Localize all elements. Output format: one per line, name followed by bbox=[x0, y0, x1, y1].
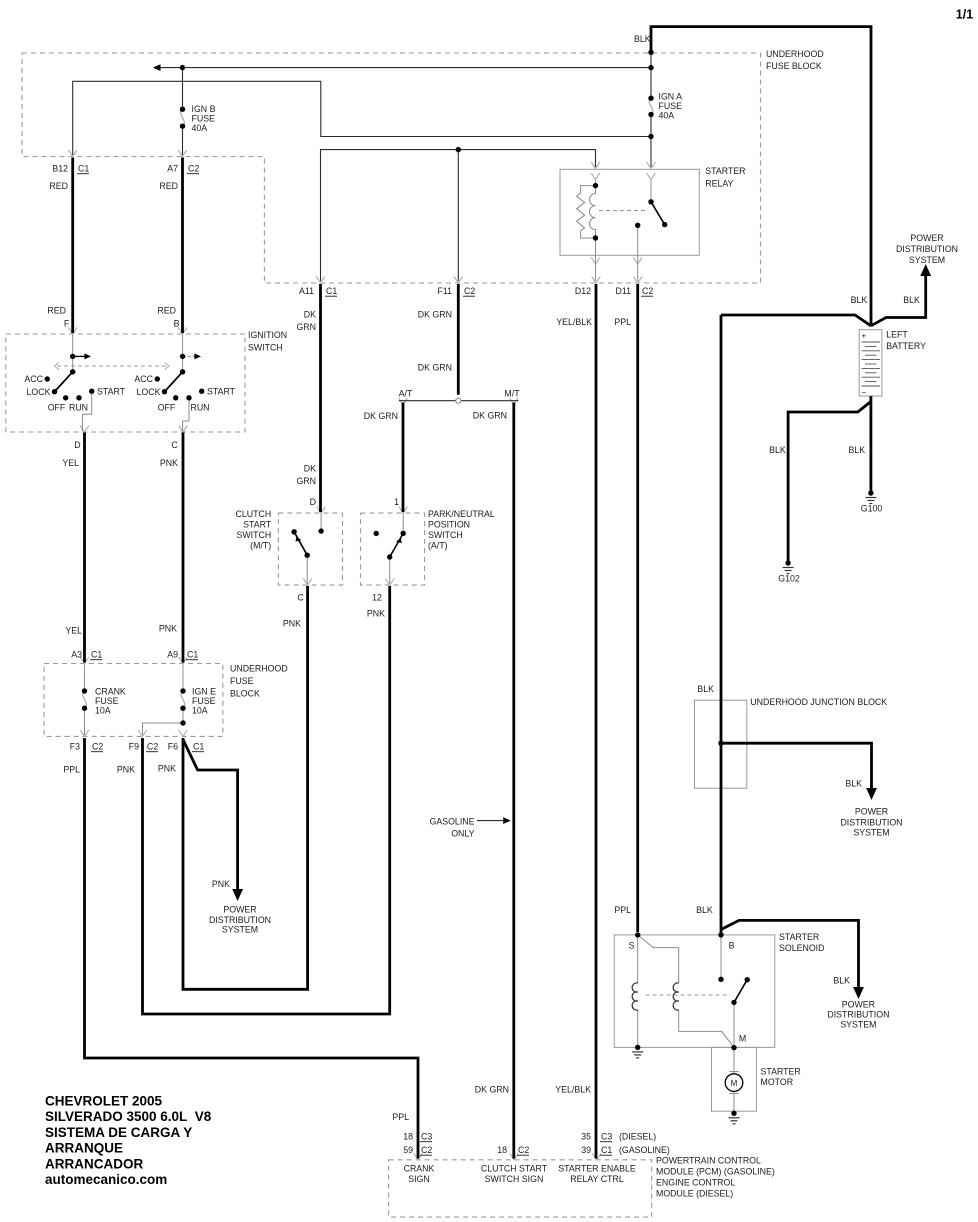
svg-text:SWITCH: SWITCH bbox=[428, 530, 463, 540]
svg-text:−: − bbox=[861, 388, 866, 397]
svg-text:18: 18 bbox=[403, 1132, 413, 1142]
svg-text:PPL: PPL bbox=[614, 905, 631, 915]
svg-text:M: M bbox=[731, 1079, 738, 1088]
svg-text:PNK: PNK bbox=[212, 879, 230, 889]
svg-text:YEL/BLK: YEL/BLK bbox=[555, 1085, 591, 1095]
svg-text:BLK: BLK bbox=[696, 905, 713, 915]
svg-text:BLK: BLK bbox=[851, 295, 868, 305]
svg-text:C2: C2 bbox=[421, 1145, 432, 1155]
svg-text:DK GRN: DK GRN bbox=[475, 1085, 509, 1095]
svg-text:(A/T): (A/T) bbox=[428, 541, 448, 551]
svg-text:SISTEMA DE CARGA Y: SISTEMA DE CARGA Y bbox=[45, 1125, 192, 1140]
svg-text:YEL: YEL bbox=[62, 458, 79, 468]
svg-text:UNDERHOOD: UNDERHOOD bbox=[766, 49, 824, 59]
svg-text:10A: 10A bbox=[192, 706, 208, 716]
svg-text:UNDERHOOD JUNCTION BLOCK: UNDERHOOD JUNCTION BLOCK bbox=[750, 697, 887, 707]
svg-text:BLK: BLK bbox=[769, 445, 786, 455]
svg-text:FUSE: FUSE bbox=[192, 696, 216, 706]
svg-text:PPL: PPL bbox=[614, 317, 631, 327]
svg-text:UNDERHOOD: UNDERHOOD bbox=[230, 664, 288, 674]
svg-text:(GASOLINE): (GASOLINE) bbox=[619, 1145, 670, 1155]
svg-text:PNK: PNK bbox=[158, 764, 176, 774]
svg-text:B12: B12 bbox=[52, 164, 68, 174]
svg-text:YEL: YEL bbox=[65, 626, 82, 636]
svg-text:GRN: GRN bbox=[296, 322, 316, 332]
svg-text:C3: C3 bbox=[601, 1132, 612, 1142]
svg-text:BLK: BLK bbox=[697, 684, 714, 694]
svg-text:40A: 40A bbox=[192, 123, 208, 133]
svg-text:(M/T): (M/T) bbox=[250, 541, 271, 551]
svg-text:18: 18 bbox=[497, 1145, 507, 1155]
svg-text:C: C bbox=[297, 593, 304, 603]
svg-text:ARRANQUE: ARRANQUE bbox=[45, 1141, 123, 1156]
svg-text:DK GRN: DK GRN bbox=[364, 411, 398, 421]
svg-text:LEFT: LEFT bbox=[886, 330, 908, 340]
svg-text:POWER: POWER bbox=[223, 905, 256, 915]
svg-text:DK: DK bbox=[304, 310, 316, 320]
svg-text:POWER: POWER bbox=[842, 1000, 875, 1010]
svg-text:PNK: PNK bbox=[159, 624, 177, 634]
svg-text:RELAY: RELAY bbox=[705, 179, 733, 189]
svg-text:40A: 40A bbox=[659, 111, 675, 121]
svg-text:C1: C1 bbox=[187, 650, 198, 660]
svg-text:DK GRN: DK GRN bbox=[418, 363, 452, 373]
svg-text:DISTRIBUTION: DISTRIBUTION bbox=[209, 915, 271, 925]
svg-text:BLK: BLK bbox=[833, 976, 850, 986]
svg-text:+: + bbox=[861, 332, 866, 341]
svg-text:F11: F11 bbox=[437, 286, 452, 296]
svg-text:SYSTEM: SYSTEM bbox=[909, 255, 945, 265]
svg-text:C2: C2 bbox=[464, 286, 475, 296]
svg-text:BLK: BLK bbox=[903, 295, 920, 305]
svg-text:FUSE: FUSE bbox=[659, 101, 683, 111]
svg-text:12: 12 bbox=[372, 593, 382, 603]
svg-text:IGN E: IGN E bbox=[192, 687, 216, 697]
svg-text:CRANK: CRANK bbox=[95, 687, 126, 697]
svg-text:59: 59 bbox=[403, 1145, 413, 1155]
svg-text:GRN: GRN bbox=[296, 476, 316, 486]
svg-text:A/T: A/T bbox=[399, 389, 413, 399]
svg-text:SYSTEM: SYSTEM bbox=[853, 828, 889, 838]
svg-text:D: D bbox=[310, 497, 316, 507]
svg-text:BLK: BLK bbox=[634, 34, 651, 44]
svg-text:POWER: POWER bbox=[855, 807, 888, 817]
svg-text:SWITCH: SWITCH bbox=[248, 343, 283, 353]
svg-text:PNK: PNK bbox=[117, 765, 135, 775]
svg-text:M: M bbox=[739, 1034, 746, 1044]
svg-text:SILVERADO 3500 6.0L V8: SILVERADO 3500 6.0L V8 bbox=[45, 1109, 212, 1124]
svg-text:C2: C2 bbox=[518, 1145, 529, 1155]
svg-text:STARTER: STARTER bbox=[779, 932, 819, 942]
svg-text:D: D bbox=[74, 440, 80, 450]
svg-text:C2: C2 bbox=[642, 286, 653, 296]
svg-text:G102: G102 bbox=[778, 574, 800, 584]
svg-text:RUN: RUN bbox=[190, 403, 209, 413]
svg-text:START: START bbox=[243, 520, 272, 530]
svg-text:PPL: PPL bbox=[63, 765, 80, 775]
svg-text:START: START bbox=[207, 387, 236, 397]
svg-text:MODULE (DIESEL): MODULE (DIESEL) bbox=[656, 1189, 733, 1199]
svg-text:C: C bbox=[171, 440, 178, 450]
svg-text:CLUTCH START: CLUTCH START bbox=[481, 1164, 548, 1174]
svg-text:RELAY CTRL: RELAY CTRL bbox=[570, 1174, 624, 1184]
svg-text:B: B bbox=[174, 319, 180, 329]
svg-text:IGNITION: IGNITION bbox=[248, 330, 287, 340]
svg-text:DISTRIBUTION: DISTRIBUTION bbox=[827, 1010, 889, 1020]
svg-text:A7: A7 bbox=[167, 164, 178, 174]
svg-text:BLOCK: BLOCK bbox=[230, 689, 260, 699]
svg-text:C1: C1 bbox=[78, 164, 89, 174]
svg-text:OFF: OFF bbox=[48, 403, 66, 413]
svg-text:BATTERY: BATTERY bbox=[886, 341, 926, 351]
svg-text:PNK: PNK bbox=[283, 619, 301, 629]
svg-text:IGN A: IGN A bbox=[659, 92, 683, 102]
svg-text:F9: F9 bbox=[129, 742, 139, 752]
svg-text:D12: D12 bbox=[575, 286, 591, 296]
svg-text:LOCK: LOCK bbox=[27, 387, 51, 397]
svg-text:CRANK: CRANK bbox=[404, 1164, 435, 1174]
svg-text:RED: RED bbox=[49, 181, 68, 191]
svg-text:DISTRIBUTION: DISTRIBUTION bbox=[840, 818, 902, 828]
svg-text:D11: D11 bbox=[616, 286, 632, 296]
svg-text:RED: RED bbox=[159, 181, 178, 191]
svg-text:POWERTRAIN CONTROL: POWERTRAIN CONTROL bbox=[656, 1156, 761, 1166]
svg-text:MOTOR: MOTOR bbox=[761, 1077, 794, 1087]
svg-text:C3: C3 bbox=[421, 1132, 432, 1142]
svg-text:PNK: PNK bbox=[160, 458, 178, 468]
svg-text:CLUTCH: CLUTCH bbox=[236, 509, 272, 519]
svg-text:35: 35 bbox=[581, 1132, 591, 1142]
svg-text:C2: C2 bbox=[92, 742, 103, 752]
svg-text:C1: C1 bbox=[326, 286, 337, 296]
svg-text:OFF: OFF bbox=[158, 403, 176, 413]
svg-text:PNK: PNK bbox=[367, 609, 385, 619]
svg-text:F: F bbox=[64, 319, 70, 329]
svg-text:10A: 10A bbox=[95, 706, 111, 716]
svg-text:SYSTEM: SYSTEM bbox=[222, 925, 258, 935]
svg-text:PPL: PPL bbox=[392, 1112, 409, 1122]
svg-text:SWITCH SIGN: SWITCH SIGN bbox=[485, 1174, 544, 1184]
svg-text:SOLENOID: SOLENOID bbox=[779, 943, 824, 953]
svg-text:S: S bbox=[629, 941, 635, 951]
svg-text:ENGINE CONTROL: ENGINE CONTROL bbox=[656, 1178, 735, 1188]
svg-text:ACC: ACC bbox=[134, 374, 153, 384]
svg-text:YEL/BLK: YEL/BLK bbox=[556, 317, 592, 327]
svg-text:M/T: M/T bbox=[504, 389, 520, 399]
svg-text:MODULE (PCM) (GASOLINE): MODULE (PCM) (GASOLINE) bbox=[656, 1167, 775, 1177]
svg-text:C2: C2 bbox=[147, 742, 158, 752]
svg-text:POWER: POWER bbox=[910, 233, 943, 243]
svg-text:1/1: 1/1 bbox=[956, 8, 973, 22]
svg-text:A3: A3 bbox=[71, 650, 82, 660]
svg-text:B: B bbox=[729, 941, 735, 951]
svg-text:C1: C1 bbox=[193, 742, 204, 752]
svg-text:DK GRN: DK GRN bbox=[418, 310, 452, 320]
svg-text:FUSE: FUSE bbox=[230, 676, 254, 686]
svg-text:BLK: BLK bbox=[845, 779, 862, 789]
svg-text:A9: A9 bbox=[167, 650, 178, 660]
svg-text:F3: F3 bbox=[70, 742, 80, 752]
svg-text:automecanico.com: automecanico.com bbox=[45, 1172, 167, 1187]
svg-text:GASOLINE: GASOLINE bbox=[430, 817, 475, 827]
svg-text:C1: C1 bbox=[601, 1145, 612, 1155]
svg-text:G100: G100 bbox=[861, 504, 883, 514]
svg-text:START: START bbox=[97, 387, 126, 397]
svg-text:C2: C2 bbox=[188, 164, 199, 174]
svg-text:CHEVROLET 2005: CHEVROLET 2005 bbox=[45, 1094, 163, 1109]
svg-text:FUSE: FUSE bbox=[192, 114, 216, 124]
svg-text:ACC: ACC bbox=[24, 374, 43, 384]
svg-text:C1: C1 bbox=[91, 650, 102, 660]
svg-text:RUN: RUN bbox=[69, 403, 88, 413]
svg-text:POSITION: POSITION bbox=[428, 520, 470, 530]
svg-text:DK: DK bbox=[304, 464, 316, 474]
svg-text:FUSE BLOCK: FUSE BLOCK bbox=[766, 61, 822, 71]
svg-text:1: 1 bbox=[394, 497, 399, 507]
svg-text:F6: F6 bbox=[168, 742, 178, 752]
svg-text:SIGN: SIGN bbox=[408, 1174, 430, 1184]
svg-text:LOCK: LOCK bbox=[137, 387, 161, 397]
svg-text:SWITCH: SWITCH bbox=[236, 530, 271, 540]
svg-text:ARRANCADOR: ARRANCADOR bbox=[45, 1156, 143, 1171]
svg-text:SYSTEM: SYSTEM bbox=[840, 1020, 876, 1030]
svg-text:PARK/NEUTRAL: PARK/NEUTRAL bbox=[428, 509, 495, 519]
svg-text:A11: A11 bbox=[299, 286, 314, 296]
svg-text:39: 39 bbox=[581, 1145, 591, 1155]
svg-text:BLK: BLK bbox=[848, 445, 865, 455]
svg-text:RED: RED bbox=[47, 306, 66, 316]
svg-text:STARTER ENABLE: STARTER ENABLE bbox=[558, 1164, 636, 1174]
svg-text:DK GRN: DK GRN bbox=[473, 411, 507, 421]
svg-text:STARTER: STARTER bbox=[705, 166, 745, 176]
svg-text:DISTRIBUTION: DISTRIBUTION bbox=[896, 244, 958, 254]
svg-text:FUSE: FUSE bbox=[95, 696, 119, 706]
svg-text:IGN B: IGN B bbox=[192, 104, 216, 114]
svg-text:(DIESEL): (DIESEL) bbox=[619, 1132, 656, 1142]
svg-text:STARTER: STARTER bbox=[761, 1067, 801, 1077]
svg-text:RED: RED bbox=[157, 306, 176, 316]
svg-text:ONLY: ONLY bbox=[451, 829, 474, 839]
